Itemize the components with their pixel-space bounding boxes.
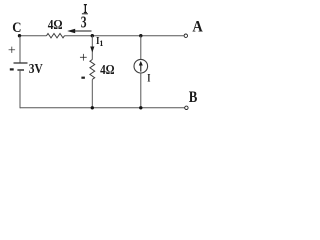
svg-text:3V: 3V bbox=[29, 62, 43, 77]
label: fraction I/3 bbox=[81, 4, 88, 31]
svg-text:+: + bbox=[79, 50, 87, 66]
battery V1 3V: short negative plate bbox=[17, 69, 24, 71]
resistor R2 4Ω (middle, vertical zigzag) bbox=[90, 60, 95, 80]
svg-text:B: B bbox=[189, 89, 198, 106]
wire: left branch lower (battery - plate down to bottom rail) bbox=[19, 70, 21, 108]
wire: current-source branch lower bbox=[140, 73, 142, 108]
current source arrow (pointing up, inside circle) bbox=[139, 61, 143, 72]
node C junction dot bbox=[18, 34, 21, 37]
svg-text:A: A bbox=[192, 19, 203, 36]
wire: current-source branch upper bbox=[140, 36, 142, 59]
terminal B (open circle) bbox=[185, 106, 188, 109]
svg-text:+: + bbox=[8, 43, 16, 58]
R2 polarity label - bbox=[81, 77, 85, 79]
junction dot at bottom of current-source branch bbox=[139, 106, 142, 109]
wire: top rail from R1 to terminal A bbox=[65, 35, 184, 37]
terminal A (open circle) bbox=[184, 34, 187, 37]
wire: top rail from node C to resistor R1 bbox=[20, 35, 47, 37]
svg-text:C: C bbox=[12, 20, 21, 36]
junction dot at bottom of middle branch bbox=[91, 106, 94, 109]
junction dot at top of middle branch bbox=[91, 34, 94, 37]
battery polarity label - bbox=[10, 68, 14, 70]
junction dot at top of current-source branch bbox=[139, 34, 142, 37]
wire: left branch upper (node C down to battery + plate) bbox=[19, 36, 21, 63]
resistor R1 4Ω (top, zigzag) bbox=[47, 34, 65, 38]
wire: bottom rail bbox=[20, 107, 185, 109]
current arrow I1 (pointing down, on middle branch) bbox=[90, 47, 94, 53]
current direction arrow I/3 (pointing left) bbox=[67, 29, 91, 33]
svg-text:4Ω: 4Ω bbox=[100, 63, 115, 78]
svg-text:3: 3 bbox=[81, 12, 87, 31]
current source I (circle) bbox=[134, 59, 148, 73]
svg-text:4Ω: 4Ω bbox=[48, 18, 63, 33]
battery V1 3V: long positive plate bbox=[14, 62, 28, 64]
wire: middle branch upper (junction down to resistor R2) bbox=[91, 36, 93, 60]
svg-text:I: I bbox=[147, 71, 150, 85]
wire: middle branch lower (R2 down to bottom rail) bbox=[91, 80, 93, 108]
svg-text:1: 1 bbox=[99, 39, 103, 48]
